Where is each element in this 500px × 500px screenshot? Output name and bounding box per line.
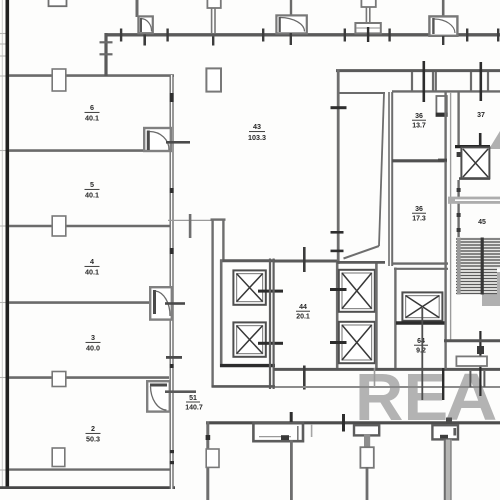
label room43 xyxy=(248,122,266,142)
corridor wall x172 xyxy=(170,75,174,489)
stair rails xyxy=(457,238,461,295)
stub wall x368 xyxy=(365,7,367,24)
svg-text:17.3: 17.3 xyxy=(412,216,426,223)
watermark REA xyxy=(355,360,498,435)
duct box room36 xyxy=(436,96,448,117)
wall x291 lower xyxy=(290,440,293,500)
svg-text:36: 36 xyxy=(415,206,423,213)
svg-text:44: 44 xyxy=(299,304,307,311)
window top3 xyxy=(355,23,380,42)
vent line x481 lower segment xyxy=(479,133,482,158)
svg-text:40.1: 40.1 xyxy=(85,114,99,123)
svg-text:4: 4 xyxy=(90,257,94,266)
svg-text:51: 51 xyxy=(189,395,197,402)
stub wall door4 xyxy=(442,0,445,17)
elevator R door bars xyxy=(330,288,347,291)
watermark gray fragment stairs xyxy=(482,272,500,306)
elevator block L top wall xyxy=(220,259,275,262)
tick x208 wall xyxy=(206,435,211,440)
wall room4/room3 xyxy=(9,225,170,228)
machine room bottom wall xyxy=(212,385,276,388)
tick x343 xyxy=(342,414,345,432)
shaft cap wall xyxy=(211,218,226,220)
dim line 51 xyxy=(165,390,196,393)
balcony box top-left xyxy=(49,0,67,6)
stub above wall x291 xyxy=(290,412,293,422)
corridor44 bottom wall xyxy=(274,368,500,371)
svg-text:103.3: 103.3 xyxy=(248,133,266,142)
wall x367 xyxy=(366,467,369,500)
dim tick room5 xyxy=(189,214,192,238)
upper right section top wall xyxy=(336,69,500,72)
svg-text:20.1: 20.1 xyxy=(296,314,310,321)
elevator shaft M xyxy=(402,292,442,320)
niche box bottom xyxy=(253,423,303,441)
balcony box x361 xyxy=(361,0,375,7)
wall room5/room4 xyxy=(9,149,146,152)
narrow room east wall slanted xyxy=(379,93,384,246)
room36b bottom wall xyxy=(392,262,448,264)
wall room3/room2 xyxy=(9,376,169,379)
ticks on wall x105 xyxy=(100,41,113,43)
label room2 xyxy=(86,424,100,444)
label room64 xyxy=(416,338,426,355)
svg-text:140.7: 140.7 xyxy=(185,405,203,412)
dark dashes on corridor wall xyxy=(170,93,174,464)
roomX5 top wall xyxy=(394,268,448,270)
svg-text:36: 36 xyxy=(415,113,423,120)
door room6 xyxy=(144,128,171,151)
tick room6 door xyxy=(166,141,190,144)
watermark gray fragment top right xyxy=(489,131,500,149)
elevator shaft L2 xyxy=(233,322,265,356)
box column room43 xyxy=(206,68,221,91)
label room4 xyxy=(85,257,99,277)
svg-text:64: 64 xyxy=(417,338,425,345)
wall x105 top-left xyxy=(104,33,107,76)
narrow room diagonal xyxy=(344,246,380,259)
dim line room5 xyxy=(168,219,212,221)
elevator shaft R1 xyxy=(339,270,375,312)
label room3 xyxy=(86,333,100,353)
elevator block L bottom wall xyxy=(220,364,275,367)
svg-text:43: 43 xyxy=(253,122,261,131)
svg-text:40.1: 40.1 xyxy=(85,268,99,277)
svg-text:2: 2 xyxy=(91,424,95,433)
stair bottom wall xyxy=(444,339,500,342)
label room44 xyxy=(296,304,310,321)
door blob right xyxy=(477,346,484,354)
outer bottom wall xyxy=(0,486,175,489)
window room2 xyxy=(52,448,65,467)
tick room3 door xyxy=(165,302,185,305)
elevator block L west wall xyxy=(220,260,223,368)
label room6 xyxy=(85,103,99,123)
stub wall x443 xyxy=(442,368,444,400)
corridor44 top wall xyxy=(274,260,338,263)
hatch dashes corridor wall xyxy=(457,152,461,232)
stub below block R xyxy=(374,368,376,387)
elevator L door bars xyxy=(258,290,283,293)
ticks on top wall xyxy=(120,27,500,46)
wall room6/room5 xyxy=(9,74,174,77)
shaft wall east xyxy=(222,219,224,260)
svg-text:37: 37 xyxy=(477,112,485,119)
svg-text:5: 5 xyxy=(90,180,94,189)
door box bottom2 xyxy=(432,418,458,440)
ticks narrow room west wall xyxy=(331,106,347,252)
corridor east wall xyxy=(457,92,459,145)
window box x207 xyxy=(206,449,219,467)
box below right xyxy=(456,356,487,366)
door room3 xyxy=(150,287,172,319)
mid column east double wall xyxy=(444,92,446,369)
window box x367 xyxy=(360,447,373,468)
window room6 wall xyxy=(52,69,66,91)
wall x449 hatched xyxy=(444,440,452,500)
svg-text:9.2: 9.2 xyxy=(416,348,426,355)
lower strip wall y387 xyxy=(275,386,500,388)
door top4 xyxy=(429,16,457,45)
svg-text:6: 6 xyxy=(90,103,94,112)
narrow room west wall xyxy=(337,70,340,265)
stub x311 xyxy=(311,424,313,437)
left edge dimension ticks xyxy=(0,34,6,471)
section line x419 xyxy=(421,308,423,400)
staircase xyxy=(456,238,500,295)
svg-text:50.3: 50.3 xyxy=(86,435,100,444)
wall room3 lower xyxy=(9,301,151,304)
elevator TR top wall xyxy=(455,145,490,148)
narrow room top wall xyxy=(338,92,385,94)
roomX5 bottom dark wall xyxy=(396,321,446,325)
elevator block R west wall xyxy=(336,263,339,369)
bottom main wall xyxy=(206,421,500,424)
door top1 xyxy=(138,16,152,33)
balcony box x207 xyxy=(207,0,220,8)
top main wall xyxy=(105,33,500,36)
door top2 xyxy=(276,0,306,45)
tick wall x172 y357 xyxy=(166,356,182,359)
tick corridor44 top xyxy=(303,247,306,272)
elevator shaft TR xyxy=(461,147,489,178)
outer left faint line xyxy=(1,0,3,488)
section line x480 xyxy=(479,331,481,396)
door room2 xyxy=(147,381,170,411)
label room5 xyxy=(85,180,99,200)
outer left wall xyxy=(6,0,10,489)
svg-text:3: 3 xyxy=(91,333,95,342)
gray band wall y200 xyxy=(448,197,500,204)
vent line x424 xyxy=(422,61,425,102)
tick corridor44 bottom xyxy=(303,366,306,390)
elevator block L east double wall xyxy=(269,259,271,390)
window room4 wall xyxy=(52,216,66,236)
stub wall x213 xyxy=(211,8,213,33)
elevator TR bottom wall xyxy=(459,177,490,180)
shaft wall west xyxy=(211,219,213,387)
stub wall door1 xyxy=(136,0,139,17)
elevator block R east wall xyxy=(375,263,378,369)
door box bottom1 xyxy=(354,425,379,448)
svg-text:13.7: 13.7 xyxy=(412,123,426,130)
svg-text:40.1: 40.1 xyxy=(85,191,99,200)
elevator shaft R2 xyxy=(339,322,375,363)
window room3 wall xyxy=(52,372,66,387)
elevator shaft L1 xyxy=(233,270,265,304)
label room51 xyxy=(185,395,203,412)
vent line x481 xyxy=(479,62,482,101)
label room36b xyxy=(412,206,426,223)
tick left of elevator TR xyxy=(438,159,447,162)
wall room2 bottom xyxy=(9,468,172,470)
upper right rooms top wall xyxy=(392,90,500,92)
bottom west wall x208 xyxy=(206,422,209,500)
partition mullions y72-92 xyxy=(412,72,488,91)
label room36a xyxy=(412,113,426,130)
divider wall rooms 36 xyxy=(392,159,447,162)
svg-text:40.0: 40.0 xyxy=(86,344,100,353)
roomX5 west wall xyxy=(394,268,396,369)
stub walls y371-387 xyxy=(469,371,471,387)
narrow room bottom wall xyxy=(337,261,385,264)
svg-text:45: 45 xyxy=(478,219,486,226)
room36 west double wall xyxy=(388,92,390,266)
